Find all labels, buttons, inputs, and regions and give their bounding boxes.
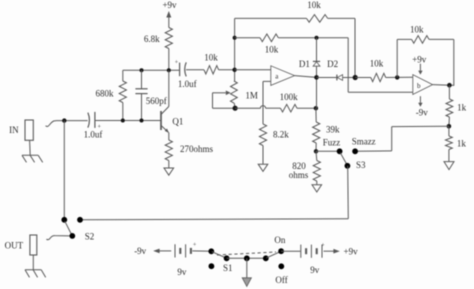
wire bbox=[219, 69, 235, 71]
svg-text:10k: 10k bbox=[204, 53, 218, 63]
wire bbox=[343, 77, 356, 79]
wire S2 to OUT jack hook bbox=[46, 236, 69, 240]
svg-text:+: + bbox=[193, 241, 197, 248]
wire bbox=[168, 49, 170, 71]
op-amp b bbox=[413, 75, 433, 95]
ground (8.2k) bbox=[258, 164, 268, 171]
wire bbox=[328, 18, 355, 77]
svg-text:-9v: -9v bbox=[134, 246, 146, 256]
ground (820 ohms) bbox=[312, 185, 322, 192]
svg-text:+9v: +9v bbox=[162, 0, 177, 10]
svg-text:a: a bbox=[275, 73, 279, 81]
wire base node line bbox=[95, 120, 161, 122]
svg-text:S2: S2 bbox=[85, 232, 95, 242]
node collector junction (6.8k) bbox=[167, 68, 171, 72]
node op-amp a output junction bbox=[314, 75, 319, 80]
node 100k-39k junction bbox=[314, 106, 318, 110]
svg-text:1k: 1k bbox=[457, 139, 467, 149]
label -9v bbox=[134, 246, 146, 256]
svg-text:6.8k: 6.8k bbox=[144, 34, 160, 44]
node D1 rail top junction bbox=[315, 36, 319, 40]
wire bbox=[262, 146, 264, 165]
wire bbox=[448, 150, 450, 162]
wire bbox=[297, 107, 316, 109]
svg-text:1.0uf: 1.0uf bbox=[84, 129, 103, 139]
label Fuzz bbox=[323, 137, 341, 147]
svg-text:10k: 10k bbox=[265, 45, 279, 55]
switch S2 bbox=[61, 217, 94, 242]
resistor 10k (op-amp b feedback) bbox=[410, 24, 429, 43]
svg-text:S3: S3 bbox=[356, 160, 366, 170]
node fuzz junction bbox=[314, 149, 318, 153]
switch S1 (DPDT power) bbox=[208, 235, 287, 285]
wire bbox=[192, 250, 211, 252]
battery 9v (positive supply) bbox=[301, 242, 325, 275]
svg-text:100k: 100k bbox=[280, 92, 299, 102]
node 1M bottom junction bbox=[233, 106, 238, 111]
svg-text:680k: 680k bbox=[96, 89, 115, 99]
node op-amp b inverting junction bbox=[395, 75, 399, 79]
resistor 10k (diode feedback) bbox=[260, 34, 279, 55]
power +9v supply arrow (Q1 stage) bbox=[162, 0, 177, 27]
power -9v (op-amp b) bbox=[416, 96, 428, 117]
resistor 270ohms (Q1 emitter) bbox=[165, 140, 213, 168]
wire bbox=[317, 77, 337, 79]
resistor 10k (series input to op-amp a) bbox=[204, 53, 219, 74]
svg-text:560pf: 560pf bbox=[146, 96, 167, 106]
capacitor 1.0uf (Q1 collector coupling) bbox=[175, 59, 197, 89]
node summing junction bbox=[353, 75, 358, 80]
node rail top-10k junction bbox=[233, 36, 237, 40]
wire bbox=[316, 181, 318, 185]
IN jack bbox=[9, 120, 33, 155]
resistor 1k (divider lower) bbox=[446, 126, 467, 149]
wire op-amp b output bbox=[433, 84, 455, 87]
wire +9v arrow bbox=[324, 246, 359, 256]
svg-text:+: + bbox=[321, 242, 325, 249]
svg-text:D1: D1 bbox=[299, 59, 310, 69]
node input junction bbox=[62, 118, 66, 122]
resistor 820 ohms bbox=[289, 151, 321, 181]
wire riser to op-amp b +input bbox=[348, 38, 413, 92]
capacitor 560pf (feedback C-B) bbox=[135, 70, 166, 120]
svg-text:+9v: +9v bbox=[412, 54, 427, 64]
wire bbox=[316, 66, 318, 108]
transistor Q1 bbox=[142, 70, 184, 140]
diode D2 bbox=[327, 59, 343, 81]
wire feedback riser bbox=[397, 39, 411, 77]
svg-text:-9v: -9v bbox=[416, 108, 428, 118]
power +9v (op-amp b) bbox=[412, 54, 427, 74]
wire S3 pivot down bbox=[347, 166, 350, 219]
wire bbox=[448, 85, 450, 99]
svg-text:ohms: ohms bbox=[289, 170, 309, 180]
svg-text:Q1: Q1 bbox=[172, 117, 183, 127]
diode D1 bbox=[299, 59, 320, 69]
wire second feedback run bbox=[235, 37, 260, 39]
svg-text:OUT: OUT bbox=[5, 241, 24, 251]
svg-text:1M: 1M bbox=[245, 90, 258, 100]
svg-text:9v: 9v bbox=[310, 265, 320, 275]
node collector junction (560pf) bbox=[140, 68, 144, 72]
wire battery center tap bbox=[246, 258, 248, 277]
svg-text:1.0uf: 1.0uf bbox=[178, 79, 197, 89]
svg-text:On: On bbox=[274, 235, 285, 245]
svg-text:1k: 1k bbox=[457, 102, 467, 112]
svg-text:+9v: +9v bbox=[344, 246, 359, 256]
svg-text:10k: 10k bbox=[370, 59, 384, 69]
svg-text:+: + bbox=[175, 59, 179, 66]
svg-text:10k: 10k bbox=[410, 24, 424, 34]
svg-text:8.2k: 8.2k bbox=[273, 130, 289, 140]
wire D1 rail bbox=[316, 38, 318, 62]
node base junction (560pf) bbox=[140, 119, 144, 123]
wire bbox=[448, 117, 451, 126]
wire input tip hook bbox=[46, 121, 88, 127]
wire collector node line bbox=[123, 69, 179, 71]
resistor 39k bbox=[313, 108, 340, 151]
wire inverting rail (op-amp a) bbox=[234, 18, 236, 81]
svg-text:Fuzz: Fuzz bbox=[323, 137, 341, 147]
capacitor 1.0uf (input coupling) bbox=[84, 112, 103, 139]
resistor 680k (feedback C-B) bbox=[96, 70, 127, 120]
node rail input junction bbox=[232, 68, 236, 72]
wire divider tap bbox=[355, 126, 449, 151]
wire non-inverting input bbox=[263, 81, 271, 124]
svg-text:10k: 10k bbox=[307, 0, 321, 10]
wire 1M wiper bbox=[213, 91, 233, 109]
svg-text:b: b bbox=[417, 82, 421, 90]
ground (OUT jack) bbox=[25, 270, 46, 278]
wire effect return bbox=[80, 219, 348, 220]
ground (IN jack) bbox=[22, 155, 43, 162]
resistor 100k bbox=[280, 92, 299, 112]
svg-text:IN: IN bbox=[9, 125, 19, 135]
resistor 1k (divider upper) bbox=[446, 99, 467, 117]
wire 100k line bbox=[235, 106, 280, 109]
wire bbox=[429, 39, 454, 85]
svg-text:Smazz: Smazz bbox=[352, 137, 376, 147]
resistor 8.2k bbox=[259, 124, 289, 146]
op-amp a bbox=[271, 66, 295, 86]
ground (Q1 emitter) bbox=[164, 168, 174, 175]
ground (battery center) bbox=[242, 278, 251, 287]
wire op-amp a output bbox=[295, 76, 317, 78]
node op-amp b output junction bbox=[447, 83, 452, 88]
label Smazz bbox=[352, 137, 376, 147]
wire inverting input bbox=[235, 69, 271, 71]
resistor 10k (series to op-amp b) bbox=[355, 59, 413, 82]
svg-text:9v: 9v bbox=[177, 267, 187, 277]
ground (output divider) bbox=[444, 162, 454, 170]
switch S3 bbox=[337, 148, 366, 170]
node divider junction bbox=[447, 124, 452, 129]
svg-text:D2: D2 bbox=[327, 59, 338, 69]
svg-text:Off: Off bbox=[275, 275, 287, 285]
resistor 6.8k (Q1 collector load) bbox=[144, 28, 172, 49]
wire bypass riser bbox=[63, 121, 65, 220]
svg-text:S1: S1 bbox=[223, 263, 233, 273]
wire fuzz contact line bbox=[316, 150, 340, 152]
battery 9v (negative supply) bbox=[175, 241, 197, 277]
OUT jack bbox=[5, 235, 37, 270]
wire bbox=[186, 69, 204, 71]
wire bbox=[278, 37, 348, 39]
node base junction (680k) bbox=[121, 119, 125, 123]
svg-text:39k: 39k bbox=[326, 125, 340, 135]
wire bbox=[281, 250, 300, 252]
resistor 10k (top feedback) bbox=[307, 0, 328, 22]
wire -9v arrow bbox=[153, 249, 171, 254]
potentiometer 1M (gain) bbox=[231, 81, 258, 108]
svg-text:270ohms: 270ohms bbox=[180, 144, 214, 154]
wire top feedback run bbox=[235, 17, 307, 19]
